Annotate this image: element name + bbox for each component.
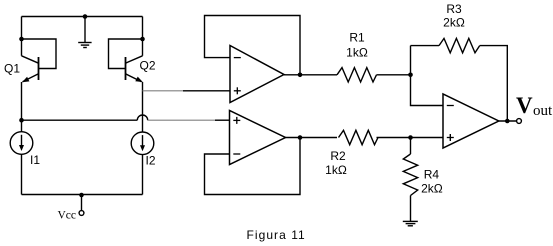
wire: hop to op-amp U2 + input (grey segment) <box>148 119 215 121</box>
svg-text:Q2: Q2 <box>140 59 156 73</box>
svg-text:2kΩ: 2kΩ <box>443 16 465 30</box>
resistor R3 <box>439 38 480 52</box>
node: R1/R3/U3- junction <box>408 73 413 78</box>
wire: U2 output <box>286 137 338 139</box>
wire: top rail <box>22 16 143 18</box>
wire: bottom rail <box>22 194 143 196</box>
ground (bottom, under R4) <box>403 221 418 225</box>
svg-text:R1: R1 <box>349 31 365 45</box>
wire: Q1 emitter node to hop <box>22 119 138 121</box>
op-amp U2 (bottom buffer) <box>230 111 286 165</box>
wire: U3 output <box>499 120 517 122</box>
node: Q1 emitter junction to buffer wire <box>19 118 24 123</box>
svg-text:R4: R4 <box>424 167 440 181</box>
wire: R1 to summing node <box>377 74 411 76</box>
svg-text:Vcc: Vcc <box>58 210 77 222</box>
node: U2 output junction <box>298 135 303 140</box>
node: top rail ground junction <box>83 14 88 19</box>
wire: Q1 emitter down to I1 <box>21 82 23 132</box>
svg-text:out: out <box>533 103 553 119</box>
svg-text:I1: I1 <box>30 153 40 167</box>
wire: Q2 base-collector loop <box>109 39 143 69</box>
node: R2/R4/U3+ junction <box>408 135 413 140</box>
wire: Q2 emitter down to I2 <box>142 82 144 132</box>
wire: U2 feedback loop (output to - input) <box>205 138 301 195</box>
node: Vcc junction on bottom rail <box>79 193 84 198</box>
ground (top) <box>78 17 91 48</box>
wire: Q2 emitter to op-amp U1 + input (grey segment) <box>143 90 184 92</box>
node: Q2 collector-base junction <box>140 37 145 42</box>
transistor Q1 <box>22 56 39 82</box>
svg-text:1kΩ: 1kΩ <box>325 163 347 177</box>
transistor Q2 <box>126 56 143 82</box>
wire: node down to U3 - input <box>411 75 444 106</box>
op-amp U3 (output difference amp) <box>443 94 499 148</box>
svg-text:R3: R3 <box>446 2 462 16</box>
terminal: Vout open circle <box>517 119 522 124</box>
current source I2 <box>131 132 154 155</box>
svg-text:V: V <box>516 93 533 118</box>
node: U1 output junction <box>298 73 303 78</box>
terminal: Vcc open circle <box>79 211 84 216</box>
wire: I1 to bottom rail <box>21 154 23 194</box>
wire: R3 left lead <box>411 45 440 47</box>
wire: I2 to bottom rail <box>142 155 144 195</box>
resistor R4 <box>403 138 417 222</box>
wire: U1 feedback loop (output to - input) <box>205 16 301 75</box>
resistor R2 <box>339 130 379 144</box>
svg-text:I2: I2 <box>146 154 156 168</box>
wire: Q1 base-collector loop <box>22 39 57 69</box>
wire: to op-amp U2 + input (black segment) <box>215 119 230 121</box>
node: U3 output / R3 junction <box>505 119 510 124</box>
wire: hop over I2 branch <box>137 115 147 120</box>
op-amp U1 (top buffer) <box>230 46 284 103</box>
node: Q1 collector-base junction <box>19 37 24 42</box>
wire: node to R3 (up) <box>410 46 412 75</box>
current source I1 <box>10 132 33 155</box>
resistor R1 <box>337 68 377 82</box>
wire: Vcc stem <box>81 195 83 211</box>
wire: Q2 collector to rail <box>142 17 144 56</box>
wire: to op-amp U1 + input (black segment) <box>183 90 230 92</box>
svg-text:Q1: Q1 <box>4 62 20 76</box>
svg-text:Figura 11: Figura 11 <box>247 228 306 242</box>
svg-text:1kΩ: 1kΩ <box>346 46 368 60</box>
wire: U1 output <box>284 74 337 76</box>
svg-text:R2: R2 <box>330 149 346 163</box>
svg-text:2kΩ: 2kΩ <box>421 182 443 196</box>
wire: R2 to + node <box>377 137 444 139</box>
wire: Q1 collector to rail <box>21 17 23 56</box>
wire: R3 right lead to output <box>480 46 508 121</box>
